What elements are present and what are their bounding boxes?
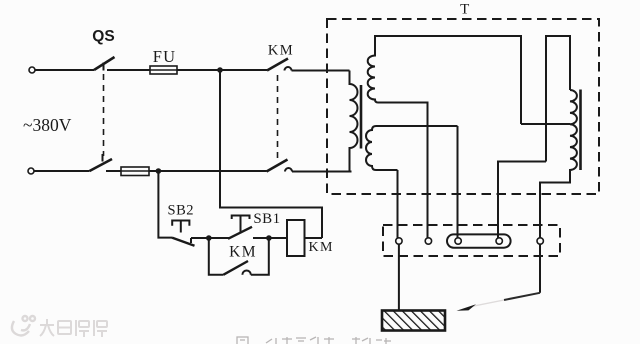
svg-text:SB2: SB2 [168, 202, 195, 218]
svg-text:SB1: SB1 [253, 211, 280, 227]
svg-text:T: T [460, 1, 469, 17]
svg-text:KM: KM [268, 42, 294, 58]
svg-text:FU: FU [153, 47, 177, 66]
svg-text:QS: QS [92, 28, 114, 45]
svg-text:~380V: ~380V [23, 115, 72, 135]
svg-text:KM: KM [229, 244, 257, 261]
svg-text:KM: KM [309, 240, 334, 255]
